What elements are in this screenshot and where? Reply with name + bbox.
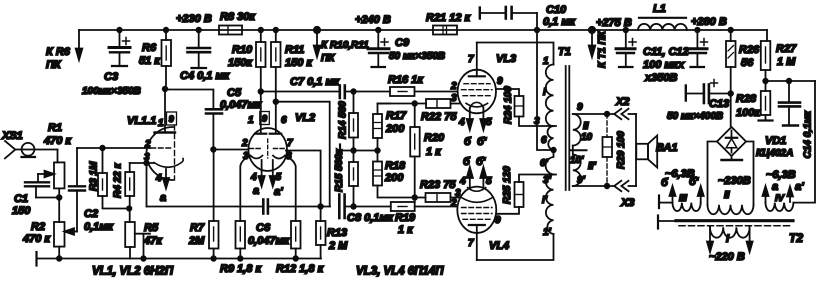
- svg-text:С14 0,1мк: С14 0,1мк: [803, 110, 814, 158]
- svg-text:С2: С2: [84, 208, 98, 220]
- svg-text:а: а: [772, 181, 778, 193]
- svg-text:VL1, VL2 6Н2П: VL1, VL2 6Н2П: [92, 266, 174, 278]
- capacitor C4: [180, 28, 231, 82]
- cathode of VL3: [466, 103, 488, 107]
- capacitor C3: [82, 28, 141, 97]
- junction R27 / R28 / C14 line: [763, 79, 768, 84]
- resistor R4: [113, 163, 135, 222]
- svg-text:R14 560: R14 560: [338, 101, 349, 139]
- svg-text:1 М: 1 М: [777, 56, 796, 68]
- svg-text:XS1: XS1: [1, 130, 23, 142]
- resistor R2 (potentiometer): [22, 221, 65, 261]
- svg-text:IV: IV: [775, 193, 785, 204]
- svg-text:200: 200: [385, 123, 405, 135]
- grid of VL1.1: [151, 147, 172, 149]
- anode of VL1.1: [164, 89, 166, 132]
- wire R19 to VL4 grid: [415, 206, 457, 208]
- ground stub of C9: [372, 66, 386, 68]
- svg-text:R8 30к: R8 30к: [220, 11, 256, 23]
- cathode right (pin 8) of VL2: [273, 156, 285, 159]
- svg-text:5: 5: [486, 117, 492, 128]
- svg-text:III: III: [679, 193, 687, 204]
- svg-text:470 к: 470 к: [22, 233, 51, 245]
- junction C5 / grid VL2 / R7: [211, 147, 216, 152]
- svg-text:I: I: [543, 87, 546, 98]
- resistor R27: [761, 30, 797, 81]
- anode left (pin 1) of VL2: [255, 133, 266, 135]
- wire T1 pin 9' to X3: [573, 185, 614, 187]
- svg-text:3: 3: [451, 93, 457, 104]
- ground stub of C3: [112, 65, 127, 67]
- anode right (pin 6) of VL2: [270, 133, 281, 135]
- svg-text:С8 0,1мк: С8 0,1мк: [347, 212, 395, 224]
- svg-text:2: 2: [144, 139, 151, 150]
- heater lead а' (arrow): [789, 197, 791, 203]
- svg-text:С9: С9: [395, 37, 410, 49]
- resistor R23: [415, 179, 460, 202]
- svg-text:R26: R26: [739, 44, 760, 56]
- svg-text:L1: L1: [653, 3, 666, 15]
- triode VL1.1 (half of 6Н2П): [127, 89, 183, 204]
- wire T1 pin 9 to X2: [573, 113, 614, 115]
- svg-text:II': II': [588, 161, 597, 172]
- svg-text:б: б: [463, 156, 471, 168]
- svg-text:1 к: 1 к: [398, 224, 414, 236]
- resistor R7: [188, 150, 219, 261]
- T1 secondary pins 10/10' tie bar: [571, 149, 587, 151]
- connector XS1: [1, 130, 58, 158]
- svg-text:9: 9: [577, 102, 583, 113]
- wire cathode right VL2 to R12: [285, 156, 296, 221]
- heater lead а (arrow): [765, 196, 767, 203]
- svg-text:К Т1 ПК: К Т1 ПК: [597, 30, 608, 68]
- svg-text:7: 7: [468, 54, 474, 65]
- anode (pin 7) of VL4: [469, 224, 485, 226]
- svg-text:9': 9': [577, 175, 586, 186]
- capacitor C13: [667, 80, 731, 123]
- svg-text:5: 5: [486, 176, 492, 187]
- svg-text:С6: С6: [256, 222, 271, 234]
- svg-text:150: 150: [12, 205, 31, 217]
- resistor R14: [338, 92, 359, 151]
- svg-text:1 к: 1 к: [426, 146, 442, 158]
- svg-text:4: 4: [458, 117, 465, 128]
- T2 winding I (~220 В primary): [707, 227, 753, 263]
- svg-text:R18: R18: [385, 160, 406, 172]
- svg-text:К R6: К R6: [46, 46, 71, 58]
- wiper of R1 (arrow from C1): [38, 173, 49, 175]
- ground stub of R28: [759, 119, 773, 121]
- svg-text:~230В: ~230В: [718, 175, 751, 187]
- svg-text:VL3, VL4 6П14П: VL3, VL4 6П14П: [356, 266, 444, 278]
- svg-text:9: 9: [495, 215, 501, 226]
- chassis of T2 core: [657, 216, 659, 229]
- connector X3: [614, 181, 636, 209]
- svg-text:б': б': [476, 156, 486, 168]
- resistor R15: [334, 148, 358, 206]
- resistor R12: [276, 221, 325, 275]
- svg-text:С3: С3: [104, 71, 118, 83]
- capacitor C9: [368, 28, 445, 66]
- svg-text:10: 10: [581, 132, 593, 143]
- svg-text:56: 56: [741, 57, 754, 69]
- grid left (pin 2) of VL2: [250, 148, 263, 150]
- svg-text:R15 560к: R15 560к: [334, 148, 345, 192]
- shield (dashed) of VL2: [267, 139, 269, 158]
- svg-text:9: 9: [262, 114, 267, 124]
- svg-text:4: 4: [459, 176, 466, 187]
- svg-text:Т1: Т1: [558, 46, 571, 58]
- svg-text:Т2: Т2: [789, 231, 803, 245]
- cathode of VL1.1: [154, 159, 183, 168]
- ground stub of C4: [192, 67, 207, 69]
- wire grid of VL1.1: [77, 147, 150, 149]
- wire right edge down to T2 winding IV: [793, 81, 815, 203]
- T2 winding II (~230В): [708, 175, 754, 214]
- junction R29 top: [605, 112, 610, 117]
- resistor R6: [139, 28, 171, 89]
- resistor R24: [503, 86, 556, 126]
- wire anode VL3 to T1 pin 1: [477, 43, 554, 65]
- svg-text:50 мк×350В: 50 мк×350В: [389, 51, 445, 62]
- svg-text:х350В: х350В: [644, 72, 677, 84]
- wire cathode left VL2 to R9: [240, 156, 250, 221]
- resistor R22: [421, 99, 460, 123]
- svg-text:0,1 мк: 0,1 мк: [543, 16, 576, 28]
- anode (pin 7) of VL3: [469, 75, 485, 77]
- label C11, C12 value: [643, 46, 689, 84]
- wire +275 feed down to T1 centre tap: [537, 30, 554, 150]
- svg-text:Х2: Х2: [615, 96, 629, 108]
- svg-text:R27: R27: [776, 43, 797, 55]
- resistor R17: [373, 104, 407, 151]
- svg-text:б': б': [477, 136, 487, 148]
- svg-text:R4 22 к: R4 22 к: [113, 163, 124, 198]
- svg-text:VD1: VD1: [765, 135, 786, 147]
- capacitor C11: [616, 28, 636, 66]
- svg-text:R9 1,8 к: R9 1,8 к: [220, 263, 262, 275]
- svg-text:6': 6': [540, 158, 549, 169]
- capacitor C2: [69, 148, 114, 233]
- capacitor C5: [206, 87, 263, 150]
- wire VL3 cathode line: [378, 103, 427, 105]
- svg-text:б: б: [464, 136, 472, 148]
- resistor R3: [89, 146, 130, 209]
- svg-text:I: I: [726, 233, 730, 245]
- svg-text:а: а: [253, 185, 259, 197]
- svg-text:II: II: [724, 190, 730, 201]
- svg-text:R28: R28: [736, 93, 757, 105]
- connector X2: [614, 96, 636, 119]
- junction R13 / feedback bus: [318, 204, 323, 209]
- svg-text:К R10,R11: К R10,R11: [321, 40, 369, 51]
- T1 core: [565, 66, 567, 190]
- svg-text:R6: R6: [142, 42, 157, 54]
- node К R10,R11 ПК (arrow down from rail): [314, 27, 369, 64]
- svg-text:9: 9: [497, 76, 503, 87]
- svg-text:+280 В: +280 В: [691, 16, 727, 28]
- capacitor C14: [779, 79, 814, 159]
- svg-text:150 к: 150 к: [285, 57, 313, 69]
- svg-text:а': а': [795, 181, 804, 193]
- svg-text:R17: R17: [386, 110, 407, 122]
- resistor R5: [125, 222, 163, 261]
- heater lead б (arrow): [672, 196, 674, 203]
- svg-text:R2: R2: [31, 221, 45, 233]
- capacitor C12: [688, 28, 708, 66]
- svg-text:R12 1,8 к: R12 1,8 к: [276, 263, 325, 275]
- wire VD1 right to T2 winding II: [746, 142, 754, 205]
- svg-text:7: 7: [468, 238, 474, 249]
- T2 winding III (~6,3В б): [665, 168, 701, 211]
- wire bottom common rail: [37, 258, 322, 260]
- wire R27 bottom to right edge: [766, 80, 816, 82]
- svg-text:2 М: 2 М: [328, 240, 348, 252]
- wire VD1 left to T2 winding II: [708, 142, 718, 205]
- junction R20 top: [412, 101, 417, 106]
- junction R15 / C8 bus: [351, 204, 356, 209]
- svg-text:R29 100: R29 100: [616, 131, 627, 169]
- svg-text:VL2: VL2: [295, 112, 315, 124]
- svg-text:1: 1: [543, 56, 549, 67]
- svg-text:R3 1М: R3 1М: [89, 161, 100, 191]
- T1 primary winding I (upper): [534, 56, 554, 150]
- loudspeaker BA1: [636, 114, 678, 186]
- svg-text:ПК: ПК: [321, 53, 335, 64]
- wire anode VL4 to T1 pin 1': [477, 234, 554, 260]
- junction R20 bottom / R18 / R23 / R19: [412, 195, 417, 200]
- ground stub of winding III: [658, 196, 660, 209]
- svg-text:7: 7: [287, 138, 293, 149]
- svg-text:~220 В: ~220 В: [709, 251, 745, 263]
- svg-text:47к: 47к: [143, 235, 163, 247]
- heater of VL4: [468, 188, 486, 192]
- resistor R20: [410, 104, 445, 198]
- wire cathode VL1.1 to R4: [130, 162, 154, 164]
- ground stub of C12: [691, 66, 705, 68]
- svg-text:10': 10': [570, 155, 584, 166]
- cathode of VL4: [462, 198, 492, 203]
- svg-text:R25 120: R25 120: [502, 166, 513, 204]
- svg-text:2: 2: [241, 138, 248, 149]
- svg-text:150к: 150к: [228, 57, 253, 69]
- T2 winding IV (~6,3В а): [766, 169, 796, 211]
- resistor R18: [373, 148, 415, 197]
- svg-text:470 к: 470 к: [43, 135, 72, 147]
- junction R14/R15 on balance bus: [351, 148, 356, 153]
- cathode left (pin 3) of VL2: [251, 156, 263, 159]
- resistor R1 (potentiometer): [43, 122, 72, 222]
- resistor R26: [726, 28, 760, 126]
- svg-text:С11, С12: С11, С12: [643, 46, 689, 58]
- svg-text:С13: С13: [709, 98, 729, 110]
- heater pins 4,5 of VL3 (arrows to б, б'): [469, 108, 471, 120]
- capacitor C8 (on lower signal bus): [339, 195, 394, 225]
- svg-text:0,1мк: 0,1мк: [84, 221, 114, 233]
- svg-text:4: 4: [155, 173, 162, 184]
- junction rail / C10 / T1 feed: [535, 28, 540, 33]
- svg-text:КЦ402А: КЦ402А: [756, 148, 793, 159]
- svg-text:+240 В: +240 В: [355, 14, 391, 26]
- resistor R16: [388, 74, 456, 96]
- svg-text:R5: R5: [144, 222, 159, 234]
- svg-text:VL1.1: VL1.1: [127, 115, 156, 127]
- node К R6 ПК (arrow down from rail): [46, 30, 82, 71]
- rectifier bridge VD1: [717, 127, 793, 159]
- resistor R25: [502, 166, 556, 207]
- junction anode left VL2 / C7 wire: [259, 89, 264, 94]
- ground stub of VD1: [731, 156, 733, 160]
- wire balance bus with end stub: [340, 150, 378, 152]
- wire anode left VL2 to C7: [261, 91, 339, 93]
- wire anode right VL2 to C8 branch: [276, 102, 330, 207]
- svg-text:3': 3': [543, 175, 552, 186]
- svg-text:Х3: Х3: [620, 197, 634, 209]
- wire grid right VL2 (pin 7) to R13: [286, 151, 321, 222]
- heater pins 4,5 of VL4 (arrows up to б, б'): [469, 178, 471, 188]
- svg-text:3: 3: [534, 116, 540, 127]
- svg-text:VL3: VL3: [496, 53, 516, 65]
- svg-text:50 мк×400В: 50 мк×400В: [667, 111, 723, 122]
- capacitor C7: [290, 76, 390, 98]
- ground stub of C14: [783, 124, 798, 126]
- svg-text:5: 5: [276, 172, 282, 183]
- svg-text:С1: С1: [14, 193, 28, 205]
- svg-text:б: б: [661, 177, 669, 189]
- resistor R13: [316, 221, 348, 259]
- shield pin 9 box of VL1.1: [167, 112, 177, 125]
- junction R29 bottom: [605, 184, 610, 189]
- end stub of bottom rail: [35, 252, 37, 266]
- heater pins 4,5 of VL2 (arrows to a, a'): [261, 160, 263, 176]
- wire screen grid pin 9 VL3 to R24: [497, 89, 519, 96]
- inductor L1: [638, 3, 687, 30]
- svg-text:R22 75: R22 75: [421, 111, 457, 123]
- svg-text:100мк×350В: 100мк×350В: [82, 86, 141, 97]
- resistor R10: [228, 28, 266, 133]
- heater pin 4 of VL1.1 (arrow to a): [165, 169, 167, 178]
- svg-text:R21 12 к: R21 12 к: [426, 12, 472, 24]
- envelope arc of VL1.1: [147, 127, 173, 180]
- svg-text:4: 4: [250, 172, 257, 183]
- tube VL4 (6П14П output pentode, mirrored): [450, 156, 509, 260]
- capacitor C10: [480, 4, 577, 30]
- svg-text:а: а: [160, 192, 166, 204]
- svg-text:б': б': [689, 176, 699, 188]
- grid right (pin 7) of VL2: [274, 148, 287, 150]
- svg-text:С5: С5: [227, 87, 242, 99]
- svg-text:R16 1к: R16 1к: [388, 74, 424, 86]
- svg-text:1: 1: [158, 118, 164, 129]
- grids of VL4: [462, 207, 493, 209]
- resistor R19: [391, 198, 416, 237]
- wire C5 to grid VL2: [213, 149, 248, 151]
- svg-text:R11: R11: [285, 44, 304, 56]
- svg-text:2: 2: [450, 198, 457, 209]
- ground stub of C11: [619, 66, 633, 68]
- svg-text:С7 0,1 мк: С7 0,1 мк: [290, 76, 341, 88]
- junction T1 pins 6/6': [551, 148, 556, 153]
- svg-text:R10: R10: [232, 44, 253, 56]
- resistor R21: [426, 12, 472, 35]
- tube VL2 (6Н2П double triode): [241, 112, 315, 199]
- svg-text:R24 100: R24 100: [503, 86, 514, 124]
- wiper of R2 (arrow from C2): [70, 231, 77, 233]
- wire cathode VL1.1 down to feedback bus: [146, 163, 148, 207]
- svg-text:С10: С10: [546, 4, 567, 16]
- svg-text:1': 1': [543, 227, 552, 238]
- svg-text:R13: R13: [327, 227, 347, 239]
- svg-text:I': I': [542, 195, 548, 206]
- svg-text:R1: R1: [48, 122, 62, 134]
- svg-text:1: 1: [248, 115, 254, 126]
- svg-text:R23 75: R23 75: [420, 179, 456, 191]
- svg-text:9: 9: [169, 114, 174, 124]
- svg-text:0,047мк: 0,047мк: [248, 235, 291, 247]
- grids of VL3: [464, 83, 490, 85]
- T1 secondary winding II: [573, 102, 593, 150]
- wire screen grid pin 9 VL4 to R25: [497, 207, 519, 214]
- svg-text:6: 6: [281, 115, 287, 126]
- tube VL3 (6П14П output pentode): [450, 43, 516, 149]
- resistor R29 (optional, dashed leads): [603, 114, 628, 186]
- svg-text:200: 200: [384, 172, 404, 184]
- heater lead б' (arrow): [700, 196, 702, 203]
- capacitor C6 (on feedback bus): [248, 200, 330, 248]
- svg-text:С4 0,1 мк: С4 0,1 мк: [180, 70, 231, 82]
- svg-text:II: II: [583, 121, 589, 132]
- junction anode VL1.1 / R6 / C5: [163, 87, 168, 92]
- resistor R9: [220, 221, 262, 275]
- capacitor C1: [12, 174, 62, 217]
- resistor R8: [219, 11, 256, 35]
- T2 core: [676, 219, 793, 222]
- svg-text:2М: 2М: [188, 235, 205, 247]
- svg-text:100 мкх: 100 мкх: [643, 59, 685, 71]
- svg-text:~6,3В: ~6,3В: [766, 169, 796, 181]
- junction C13 / R26 / VD1: [728, 91, 733, 96]
- shield pin 9 box of VL2: [260, 112, 270, 125]
- node К Т1 ПК (arrow down from rail): [589, 27, 608, 68]
- svg-text:6: 6: [541, 135, 547, 146]
- T1 secondary winding II': [570, 151, 597, 186]
- resistor R11: [271, 28, 313, 133]
- svg-text:51 к: 51 к: [139, 55, 161, 67]
- svg-text:2: 2: [450, 81, 457, 92]
- svg-text:ПК: ПК: [46, 59, 62, 71]
- svg-text:VL4: VL4: [489, 240, 509, 252]
- svg-text:+230 В: +230 В: [176, 13, 212, 25]
- T1 primary winding I' (lower): [540, 150, 554, 238]
- junction anode right VL2 / C8 branch: [274, 99, 279, 104]
- svg-text:0,047мк: 0,047мк: [220, 99, 263, 111]
- svg-text:R7: R7: [190, 222, 205, 234]
- resistor R28: [736, 81, 770, 120]
- wire anode VL1.1 to C5: [165, 90, 213, 110]
- svg-text:R20: R20: [424, 132, 445, 144]
- svg-text:ВА1: ВА1: [656, 142, 678, 154]
- svg-text:100к: 100к: [736, 107, 761, 119]
- junction C7 / R14: [351, 89, 356, 94]
- wire feedback bus (left part): [147, 206, 264, 208]
- svg-text:а': а': [274, 186, 283, 198]
- svg-text:R19: R19: [395, 212, 416, 224]
- wire top supply rail +230/+240/+275/+280: [79, 29, 767, 31]
